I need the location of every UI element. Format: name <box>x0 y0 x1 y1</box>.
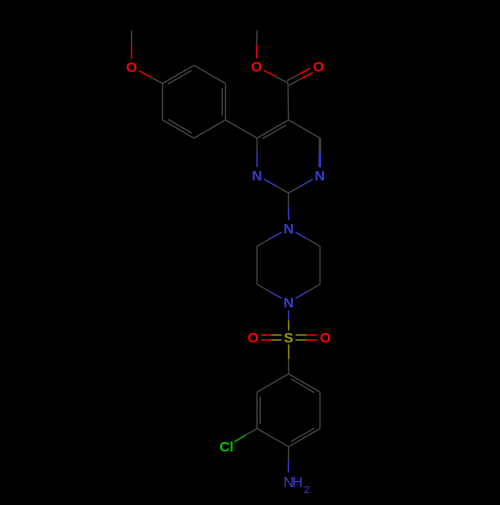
bond C-C piperazine right <box>319 246 321 284</box>
bond pyrimidine C2 - piperazine N1 <box>288 193 290 220</box>
aromatic bond B4-B5 benzene B <box>257 429 289 447</box>
bond C-O ester <box>264 70 288 83</box>
svg-text:O: O <box>251 60 262 76</box>
svg-text:O: O <box>320 331 331 347</box>
double bond N3=C4 pyrimidine (merged) <box>318 138 321 167</box>
double bond S=O right <box>296 335 318 340</box>
double bond C=O carbonyl <box>287 68 313 85</box>
bond C-N4 piperazine right <box>296 284 321 298</box>
bond CH3-O (methoxy methyl) <box>131 30 133 58</box>
bond C-C piperazine left <box>256 246 258 284</box>
aromatic bond B5-B6 benzene B (double) <box>257 392 260 428</box>
svg-text:H: H <box>292 475 303 491</box>
bond N1-C piperazine left <box>257 232 282 246</box>
aromatic bond C6-C1 benzene A <box>162 84 164 120</box>
bond N1-C piperazine right <box>296 232 321 246</box>
svg-text:2: 2 <box>304 484 310 496</box>
bond C6-N1 pyrimidine <box>256 138 258 167</box>
svg-text:N: N <box>252 168 262 184</box>
aromatic bond B6-B1 benzene B <box>257 374 289 392</box>
aromatic bond B1-B2 benzene B (double) <box>289 374 320 393</box>
svg-text:S: S <box>284 331 293 347</box>
svg-text:N: N <box>283 296 293 312</box>
bond C5-C(=O) <box>287 83 290 120</box>
bond O-C1 (methoxy to ring) <box>139 71 163 84</box>
bond O-CH3 ester methyl <box>256 30 258 58</box>
bond benzene A - pyrimidine <box>226 120 258 138</box>
svg-text:N: N <box>283 221 293 237</box>
bond N1-C2 pyrimidine <box>264 179 289 193</box>
aromatic bond C5-C6 benzene A (double) <box>163 119 195 138</box>
aromatic bond C1-C2 benzene A (double) <box>163 65 195 84</box>
aromatic bond B3-B4 benzene B (double) <box>289 428 320 447</box>
bond C-N4 piperazine left <box>257 284 282 298</box>
bond piperazine N4 - S <box>288 310 290 330</box>
svg-text:O: O <box>126 60 137 76</box>
bond C2-N3 pyrimidine <box>289 179 313 193</box>
bond S - benzene B <box>288 345 290 374</box>
svg-text:Cl: Cl <box>219 440 233 456</box>
aromatic bond C2-C3 benzene A <box>194 65 226 83</box>
aromatic bond B2-B3 benzene B <box>319 392 321 428</box>
svg-text:N: N <box>315 168 325 184</box>
aromatic bond C4-C5 benzene A <box>194 120 226 138</box>
svg-text:O: O <box>313 60 324 76</box>
svg-text:O: O <box>247 331 258 347</box>
double bond S=O left <box>261 335 282 340</box>
bond C-NH2 <box>287 447 289 473</box>
aromatic bond C3-C4 benzene A (double) <box>222 84 225 120</box>
double bond C5=C6 pyrimidine <box>257 120 289 139</box>
bond C-Cl <box>234 429 257 442</box>
bond C4-C5 pyrimidine <box>289 120 321 138</box>
